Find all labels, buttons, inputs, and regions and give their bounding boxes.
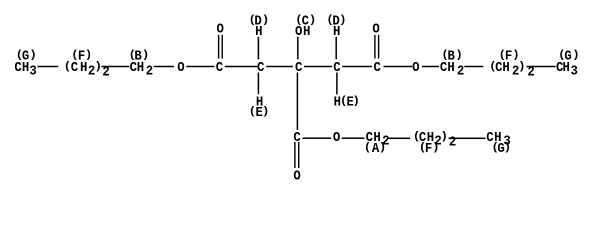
svg-text:G: G — [22, 48, 29, 64]
atom O ester bottom — [333, 129, 340, 145]
label (A) — [364, 140, 385, 156]
bond H-C left top — [258, 37, 260, 60]
bond C central-C(=O) bottom — [297, 73, 299, 131]
svg-text:): ) — [432, 140, 438, 153]
bond CH2-(CH2)2 right — [464, 66, 483, 68]
svg-text:): ) — [29, 48, 35, 61]
atom O ester right — [412, 59, 419, 75]
chemical structure diagram: tributyl citrate with NMR assignment labels — [0, 0, 608, 192]
bond C-H left bottom — [258, 73, 260, 95]
label (B) left — [129, 48, 148, 64]
svg-text:B: B — [448, 48, 455, 64]
double bond C=O bottom — [294, 142, 299, 168]
svg-text:O: O — [217, 21, 224, 37]
label (G) left — [16, 48, 36, 64]
bond O-C(=O) left — [186, 66, 214, 68]
svg-text:2: 2 — [146, 63, 153, 79]
double bond C=O left — [218, 35, 223, 59]
bond CH2-O left — [154, 66, 174, 68]
atom (CH2)2 left (F) — [64, 59, 110, 79]
atom O carbonyl top right — [372, 21, 379, 37]
svg-text:2: 2 — [449, 134, 456, 150]
svg-text:): ) — [339, 13, 345, 26]
bond CH3-(CH2)2 left — [38, 66, 59, 68]
svg-text:): ) — [441, 129, 447, 142]
double bond C=O right — [374, 35, 379, 59]
atom H top left (D) — [255, 23, 262, 39]
atom O carbonyl top left — [217, 21, 224, 37]
label (F) bottom — [419, 140, 439, 156]
label (G) right — [558, 48, 578, 64]
label (C) central — [295, 13, 315, 29]
svg-text:O: O — [333, 129, 340, 145]
label (D) left — [249, 13, 268, 29]
bond C(=O)-O right — [384, 66, 413, 68]
svg-text:): ) — [518, 59, 524, 72]
svg-text:): ) — [262, 104, 268, 117]
svg-text:): ) — [95, 59, 101, 72]
svg-text:): ) — [353, 94, 359, 107]
svg-text:): ) — [309, 13, 315, 26]
label (G) bottom — [492, 140, 510, 156]
svg-text:): ) — [85, 48, 91, 61]
bond C-H right bottom — [336, 73, 338, 95]
atom CH2 left (B) — [130, 59, 154, 79]
svg-text:O: O — [372, 21, 379, 37]
svg-text:(: ( — [340, 94, 346, 107]
atom O carbonyl bottom — [293, 168, 300, 184]
svg-text:): ) — [572, 48, 578, 61]
svg-text:): ) — [262, 13, 268, 26]
label (F) right — [499, 48, 519, 64]
svg-text:O: O — [293, 168, 300, 184]
svg-text:2: 2 — [457, 63, 464, 79]
svg-text:C: C — [374, 59, 381, 75]
svg-text:3: 3 — [29, 63, 36, 79]
label (B) right — [441, 48, 461, 64]
svg-text:(: ( — [64, 59, 70, 72]
svg-text:O: O — [177, 59, 184, 75]
bond C(=O)-CH2 left — [225, 66, 257, 68]
svg-text:): ) — [504, 140, 510, 153]
atom C carbonyl right — [374, 59, 381, 75]
label (E) right — [340, 94, 359, 110]
svg-text:C: C — [216, 59, 223, 75]
svg-text:(: ( — [249, 104, 255, 117]
svg-text:): ) — [455, 48, 461, 61]
svg-text:): ) — [379, 140, 385, 153]
atom OH central (C) — [295, 23, 310, 39]
bond H-C right top — [335, 37, 337, 60]
atom H bottom left (E) — [256, 94, 263, 110]
label (F) left — [71, 48, 91, 64]
svg-text:): ) — [512, 48, 518, 61]
svg-text:O: O — [412, 59, 419, 75]
bond OH-C central — [297, 37, 299, 60]
svg-text:(: ( — [364, 140, 370, 153]
bond (CH2)2-CH2 left — [101, 66, 129, 68]
bond O-CH2 bottom — [342, 137, 365, 139]
bond C(=O)-O bottom — [303, 137, 332, 139]
atom H bottom right (E) — [334, 94, 341, 110]
atom C carbonyl bottom — [293, 129, 300, 145]
svg-text:(: ( — [71, 48, 77, 61]
svg-text:C: C — [295, 59, 302, 75]
atom C methylene right — [333, 59, 340, 75]
bond CH2-(CH2)2 bottom — [387, 138, 410, 140]
svg-text:C: C — [14, 59, 21, 75]
atom CH3 right (G) — [556, 59, 578, 79]
atom CH2 bottom (A) — [366, 129, 390, 149]
atom CH3 bottom (G) — [486, 129, 511, 149]
bond CH2-C central — [266, 66, 293, 68]
svg-text:G: G — [564, 48, 571, 64]
atom C central — [295, 59, 302, 75]
bond CH2-C(=O) right — [342, 66, 372, 68]
bond O-CH2 right — [422, 66, 439, 68]
atom CH3 left (G) — [14, 59, 36, 79]
svg-text:F: F — [505, 48, 512, 64]
atom H top right (D) — [333, 23, 340, 39]
atom (CH2)2 bottom (F) — [413, 129, 456, 149]
bond (CH2)2-CH3 right — [527, 66, 556, 68]
atom O ester left — [177, 59, 184, 75]
atom C methylene left — [257, 59, 264, 75]
svg-text:): ) — [142, 48, 148, 61]
svg-text:3: 3 — [571, 63, 578, 79]
svg-text:C: C — [440, 59, 447, 75]
label (D) right — [326, 13, 345, 29]
bond C central-CH2 right — [304, 66, 332, 68]
atom (CH2)2 right (F) — [489, 59, 535, 79]
bond (CH2)2-CH3 bottom — [449, 138, 486, 140]
atom C carbonyl left — [216, 59, 223, 75]
atom CH2 right (B) — [440, 59, 464, 79]
label (E) left — [249, 104, 269, 120]
